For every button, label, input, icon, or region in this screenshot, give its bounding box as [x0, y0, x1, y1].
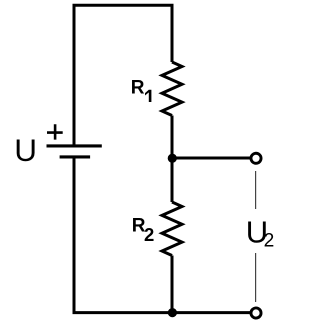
svg-text:2: 2	[144, 224, 154, 245]
wire from U+ terminal up and across top to R1 top	[74, 5, 172, 146]
wire from middle node to output terminal	[172, 157, 250, 160]
svg-text:2: 2	[264, 230, 275, 251]
wire from R1 bottom through middle node to R2 top	[171, 116, 174, 203]
svg-text:R: R	[131, 77, 145, 98]
output terminal (bottom, open circle)	[251, 308, 261, 318]
node junction dot (middle)	[168, 154, 177, 163]
battery U positive plate (long)	[47, 144, 102, 147]
output terminal (top, open circle)	[251, 153, 261, 163]
battery U negative plate (short)	[60, 155, 91, 158]
wire from R2 bottom to bottom node	[171, 256, 174, 313]
measurement line lower segment	[255, 253, 257, 302]
wire from U- terminal down and across bottom to output terminal	[74, 157, 250, 313]
plus sign at battery	[47, 124, 63, 139]
node junction dot (bottom)	[168, 308, 177, 317]
resistor R1	[162, 62, 182, 116]
svg-text:U: U	[14, 132, 37, 168]
measurement line upper segment	[255, 171, 257, 209]
resistor R2	[162, 202, 182, 256]
